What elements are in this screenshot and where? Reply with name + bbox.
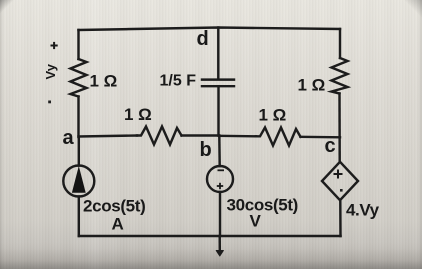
svg-text:d: d xyxy=(197,28,209,50)
svg-text:2cos(5t): 2cos(5t) xyxy=(83,197,145,216)
svg-text:1 Ω: 1 Ω xyxy=(259,106,287,125)
svg-text:b: b xyxy=(200,139,212,161)
svg-text:1 Ω: 1 Ω xyxy=(90,71,118,90)
svg-text:V: V xyxy=(250,212,262,231)
svg-text:A: A xyxy=(112,215,124,234)
svg-text:Vy: Vy xyxy=(43,63,58,79)
svg-text:4.Vy: 4.Vy xyxy=(346,201,380,220)
svg-text:1 Ω: 1 Ω xyxy=(124,105,152,124)
svg-text:30cos(5t): 30cos(5t) xyxy=(227,196,299,215)
svg-text:a: a xyxy=(63,127,75,149)
svg-text:c: c xyxy=(325,135,336,157)
svg-text:1 Ω: 1 Ω xyxy=(298,75,326,94)
svg-text:1/5 F: 1/5 F xyxy=(160,72,197,89)
